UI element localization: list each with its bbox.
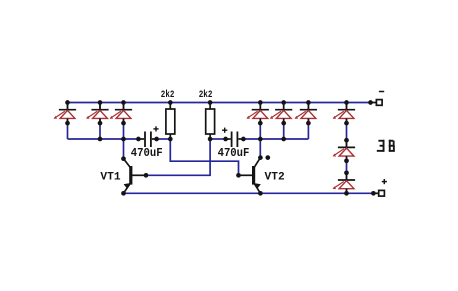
LED D6 <box>295 103 318 124</box>
node dots bus row <box>98 137 286 142</box>
resistor R2 2k2 <box>206 103 215 140</box>
LED D8 (series indicator middle) <box>333 140 356 161</box>
wire cross-coupling R2 node to VT1 base <box>146 139 210 175</box>
capacitor C2 470uF <box>222 128 243 147</box>
wire top rail (net minus) <box>68 102 371 104</box>
svg-text:2k2: 2k2 <box>161 89 175 101</box>
wire C1 right to R1 bottom node <box>157 138 171 140</box>
svg-text:VT1: VT1 <box>100 172 121 184</box>
capacitor C1 470uF <box>138 126 158 147</box>
node dot stray near VT2 collector <box>265 155 270 160</box>
node dots LED anodes row <box>65 121 311 126</box>
wire VT2 collector link <box>259 139 261 158</box>
terminal minus <box>371 100 383 106</box>
LED D3 <box>110 103 133 124</box>
node dot VT2 base <box>236 173 241 178</box>
svg-text:470uF: 470uF <box>218 146 250 160</box>
LED D5 <box>270 103 293 124</box>
node dots bottom rail <box>121 191 376 196</box>
node dots top rail <box>65 100 373 105</box>
LED D9 (series indicator bottom) <box>333 173 356 194</box>
wire LED D6 anode drop <box>307 103 309 140</box>
label battery voltage 3V <box>377 140 395 152</box>
wire LED D1 cathode drop <box>67 103 69 140</box>
svg-text:VT2: VT2 <box>265 172 285 184</box>
transistor VT2 (PNP) <box>239 158 261 194</box>
wire LED D2 cathode drop <box>99 103 101 140</box>
wire left LED bus to C1 <box>68 138 139 140</box>
wire LED D3 cathode drop <box>123 103 125 140</box>
resistor R1 2k2 <box>166 103 175 140</box>
node dot VT1 collector <box>121 156 126 161</box>
wire LED D5 anode drop <box>283 103 285 140</box>
LED D1 <box>54 103 77 124</box>
node dots series LED column <box>344 121 349 175</box>
svg-text:470uF: 470uF <box>131 146 163 160</box>
wire VT1 collector link <box>123 139 125 159</box>
LED D7 (series indicator top) <box>333 103 356 124</box>
wire C2 right to right LED bus <box>243 138 308 140</box>
LED D4 <box>246 103 269 124</box>
wire bottom rail (net plus) <box>124 192 374 194</box>
wire cross-coupling R1 node to VT2 base <box>170 139 238 175</box>
label plus sign <box>382 179 387 184</box>
terminal plus <box>373 190 384 196</box>
LED D2 <box>86 103 109 124</box>
svg-text:2k2: 2k2 <box>199 89 213 101</box>
transistor VT1 (PNP) <box>124 159 147 194</box>
node dot VT2 collector <box>258 155 263 160</box>
wire LED D4 anode drop <box>259 103 261 140</box>
wire series LED column <box>346 103 348 194</box>
node dot VT1 base <box>144 173 149 178</box>
label minus sign <box>379 91 384 93</box>
wire R2 bottom node to C2 <box>210 138 226 140</box>
